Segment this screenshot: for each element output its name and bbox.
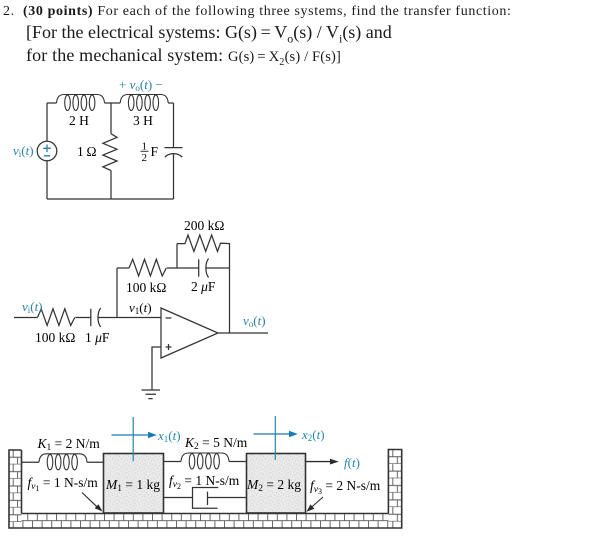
x2 reference line — [254, 416, 298, 460]
wire input left — [14, 317, 38, 319]
svg-text:vi(t): vi(t) — [13, 143, 34, 159]
svg-text:vo(t): vo(t) — [243, 313, 266, 329]
wire left vertical from source to top — [46, 103, 48, 141]
mass M2 — [247, 454, 306, 514]
svg-text:F: F — [151, 144, 159, 159]
wire junction up to 200k row — [176, 244, 178, 268]
inductor L2 3H — [120, 95, 168, 111]
capacitor 2uF — [199, 259, 209, 278]
svg-text:K1 = 2 N/m: K1 = 2 N/m — [37, 436, 101, 453]
wire top middle segment — [105, 102, 121, 104]
damper fv2 rod right — [208, 497, 247, 499]
wire left vertical from source to bottom — [46, 161, 48, 199]
svg-text:v1(t): v1(t) — [129, 300, 152, 316]
wire right vertical above capacitor — [173, 103, 175, 147]
source polarity marks — [43, 145, 51, 156]
problem statement line 1 — [3, 4, 512, 20]
resistor 200k — [177, 235, 230, 251]
plus sign input — [166, 344, 172, 350]
svg-text:1 μF: 1 μF — [85, 330, 110, 345]
problem statement line 3 — [26, 45, 341, 68]
svg-text:fv1 = 1 N-s/m: fv1 = 1 N-s/m — [28, 475, 99, 493]
f(t) arrow — [306, 459, 339, 465]
voltage source vi(t) — [37, 141, 57, 161]
damper fv2 piston — [207, 492, 209, 505]
svg-text:100 kΩ: 100 kΩ — [126, 280, 166, 295]
left wall brick fill — [9, 450, 22, 528]
svg-text:2 H: 2 H — [69, 113, 89, 128]
wire right vertical below capacitor — [173, 153, 175, 199]
wire middle branch bottom — [110, 170, 112, 199]
svg-text:f(t): f(t) — [344, 455, 360, 470]
svg-text:1: 1 — [142, 141, 148, 153]
svg-text:x1(t): x1(t) — [157, 428, 181, 444]
spring K1 — [39, 454, 87, 470]
ground symbol — [142, 390, 161, 399]
x1 reference line — [112, 417, 157, 461]
wire bottom — [47, 198, 174, 200]
right wall brick fill — [388, 450, 401, 529]
svg-text:+ vo(t) −: + vo(t) − — [119, 77, 163, 93]
spring K1 wire left — [22, 461, 40, 463]
wire top left segment — [47, 102, 57, 104]
svg-text:1 Ω: 1 Ω — [77, 144, 97, 159]
svg-text:2 μF: 2 μF — [191, 279, 216, 294]
resistor 100k feedback — [129, 259, 166, 276]
svg-text:K2 = 5 N/m: K2 = 5 N/m — [184, 435, 248, 452]
capacitor C1 1/2 F — [165, 147, 183, 149]
damper fv2 rod left — [164, 497, 193, 499]
wire output — [218, 332, 268, 334]
wire v1 node up — [116, 268, 118, 318]
mass M1 — [104, 454, 164, 514]
svg-text:fv3 = 2 N-s/m: fv3 = 2 N-s/m — [310, 478, 381, 496]
svg-text:200 kΩ: 200 kΩ — [184, 218, 224, 233]
wire top right segment — [168, 102, 173, 104]
spring K1 wire right — [87, 461, 104, 463]
wire plus input to ground — [152, 347, 161, 390]
label 1/2 F — [142, 141, 148, 165]
fv3 arrow — [307, 497, 324, 512]
fv1 arrow — [82, 493, 103, 512]
svg-text:x2(t): x2(t) — [301, 427, 325, 443]
container outline — [9, 450, 402, 529]
wire to capacitor — [75, 317, 91, 319]
svg-text:100 kΩ: 100 kΩ — [35, 330, 75, 345]
spring K2 wire right — [229, 461, 247, 463]
svg-text:3 H: 3 H — [133, 113, 153, 128]
spring K2 — [181, 453, 229, 469]
wire middle branch top — [110, 103, 112, 134]
problem statement line 2 — [26, 22, 392, 47]
wire capacitor to op-amp minus input — [98, 317, 161, 319]
resistor R1 1 ohm — [103, 134, 117, 171]
wire to junction — [167, 267, 199, 269]
op-amp U1 triangle — [161, 308, 218, 358]
floor brick fill — [22, 514, 389, 529]
svg-text:fv2 = 1 N-s/m: fv2 = 1 N-s/m — [169, 473, 240, 491]
wire feedback row left — [117, 267, 129, 269]
wire cap to right vertical — [206, 267, 230, 269]
container walls and floor (brick) — [9, 450, 402, 529]
damper fv2 cylinder — [193, 488, 219, 509]
svg-text:M1 = 1 kg: M1 = 1 kg — [105, 477, 160, 494]
svg-text:M2 = 2 kg: M2 = 2 kg — [246, 477, 301, 494]
resistor 100k input — [38, 309, 75, 326]
svg-text:2: 2 — [142, 152, 148, 164]
svg-text:vi(t): vi(t) — [22, 299, 43, 315]
wire 200k right down — [229, 244, 231, 333]
spring K2 wire left — [164, 461, 182, 463]
inductor L1 2H — [57, 95, 105, 111]
minus sign input — [166, 317, 172, 319]
capacitor 1uF — [91, 308, 101, 327]
